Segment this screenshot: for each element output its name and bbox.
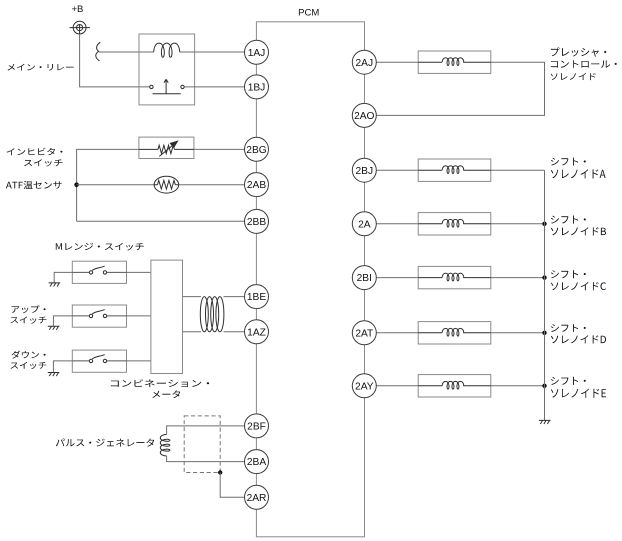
pin 2AY — [352, 374, 376, 398]
pin 2AT — [352, 321, 376, 345]
svg-text:1AZ: 1AZ — [247, 327, 266, 338]
wire battery feed to relay coil — [99, 51, 154, 53]
up switch box — [72, 305, 126, 327]
svg-text:2BB: 2BB — [247, 217, 266, 228]
svg-text:2BF: 2BF — [247, 422, 266, 433]
wire shield to pin 2AR — [220, 473, 245, 498]
pin 2BJ — [352, 158, 376, 182]
label shift solenoid A line1 — [551, 158, 586, 166]
svg-text:2AY: 2AY — [355, 381, 374, 392]
relay box (main relay) — [139, 34, 195, 105]
svg-text:2AJ: 2AJ — [356, 58, 374, 69]
wire pulse generator coil to pin 2BA — [167, 456, 245, 462]
wire pin to shift solenoid A — [376, 169, 418, 171]
wire +B to relay contact — [80, 34, 150, 87]
svg-text:2BA: 2BA — [247, 457, 266, 468]
shift solenoid B — [418, 213, 491, 235]
junction dot shield — [218, 470, 222, 474]
twisted pair wires meter to pins 1BE 1AZ — [183, 297, 246, 332]
label shift solenoid B line1 — [551, 216, 586, 224]
solenoid return bus wire — [544, 170, 546, 420]
relay contact — [150, 79, 185, 93]
svg-text:2A: 2A — [358, 219, 371, 230]
svg-text:1BJ: 1BJ — [248, 83, 266, 94]
label combination meter line2 — [152, 390, 180, 398]
inhibitor variable resistor — [139, 145, 194, 153]
svg-text:2AT: 2AT — [355, 328, 373, 339]
pin 2BG — [245, 137, 269, 161]
wire relay coil to pin 1AJ — [179, 51, 245, 53]
label pressure control solenoid line2 — [551, 60, 617, 68]
pin 2AR — [245, 485, 269, 509]
pin 1BE — [245, 285, 269, 309]
label shift solenoid C line1 — [551, 270, 586, 278]
svg-text:1AJ: 1AJ — [248, 48, 266, 59]
label up switch line2 — [11, 317, 47, 324]
wire shift solenoid C to return bus — [491, 277, 545, 279]
label inhibitor switch line1 — [7, 148, 63, 156]
junction dot solenoid D return — [542, 331, 546, 335]
wire left bus to pin 2BB — [77, 220, 245, 222]
svg-text:2AB: 2AB — [247, 180, 266, 191]
svg-text:+B: +B — [72, 4, 84, 15]
inhibitor arrow — [159, 141, 177, 156]
svg-text:2BI: 2BI — [357, 273, 372, 284]
relay coil — [154, 43, 180, 57]
shift solenoid E — [418, 375, 491, 397]
inhibitor switch box — [139, 137, 194, 158]
ground solenoid return bus — [539, 420, 551, 424]
label shift solenoid B line2 — [551, 227, 606, 235]
wire down switch to ground — [53, 361, 72, 373]
wire pin 2AJ to pressure control solenoid — [376, 61, 418, 63]
wire pin to shift solenoid D — [376, 332, 418, 334]
wire up switch to meter — [127, 315, 151, 317]
ATF temperature sensor — [154, 176, 179, 193]
pin 1AZ — [245, 320, 269, 344]
M range switch contact — [72, 266, 126, 274]
svg-text:2AO: 2AO — [354, 111, 374, 122]
wire M range switch to ground — [54, 272, 72, 283]
wire shift solenoid B to return bus — [491, 223, 545, 225]
junction dot ATF row — [74, 182, 79, 187]
wire break to battery — [96, 42, 101, 61]
pin 2BF — [245, 414, 269, 438]
wire pin to shift solenoid C — [376, 277, 418, 279]
label shift solenoid E line1 — [551, 377, 586, 385]
pulse generator coil — [160, 434, 170, 456]
label down switch line2 — [11, 362, 47, 369]
pin 2AJ — [352, 50, 376, 74]
wire shift solenoid A to return bus — [491, 169, 545, 171]
pin 2AO — [352, 103, 376, 127]
ground M range switch — [49, 283, 61, 287]
svg-text:PCM: PCM — [298, 8, 319, 19]
pressure control solenoid — [418, 51, 491, 73]
junction dot solenoid C return — [542, 275, 546, 279]
pin 2BA — [245, 450, 269, 474]
label up switch line1 — [12, 305, 46, 313]
label shift solenoid C line2 — [551, 282, 606, 290]
label M range switch — [56, 243, 144, 251]
label down switch line1 — [12, 351, 46, 359]
pin 2BB — [245, 209, 269, 233]
down switch box — [72, 350, 126, 372]
label ATF temp sensor — [6, 181, 62, 189]
wire pulse generator coil to pin 2BF — [167, 426, 245, 435]
junction dot solenoid E return — [542, 384, 546, 388]
shift solenoid A — [418, 159, 491, 181]
wire shift solenoid D to return bus — [491, 332, 545, 334]
pin 1AJ — [245, 40, 269, 64]
pin 2AB — [245, 173, 269, 197]
PCM module box — [256, 22, 364, 537]
svg-text:2BJ: 2BJ — [356, 166, 374, 177]
pin 2A — [352, 212, 376, 236]
label pressure control solenoid line1 — [551, 47, 606, 56]
wire inhibitor to pin 2BG — [194, 148, 245, 150]
wire junction to ATF sensor — [77, 184, 155, 186]
pin 1BJ — [245, 75, 269, 99]
label shift solenoid E line2 — [551, 389, 606, 398]
wire inhibitor to left bus down to 2BB row — [77, 149, 139, 221]
junction dot solenoid B return — [542, 222, 546, 226]
svg-text:1BE: 1BE — [247, 292, 266, 303]
wire up switch to ground — [53, 316, 72, 326]
wire shift solenoid E to return bus — [491, 385, 545, 387]
label shift solenoid D line1 — [551, 324, 586, 332]
power terminal +B — [70, 21, 90, 34]
up switch contact — [72, 310, 126, 318]
svg-text:2BG: 2BG — [246, 145, 266, 156]
ground down switch — [48, 373, 60, 377]
label pulse generator — [56, 439, 154, 447]
M range switch box — [72, 261, 126, 283]
wire down switch to meter — [127, 360, 151, 362]
shift solenoid D — [418, 322, 491, 344]
label shift solenoid A line2 — [551, 169, 606, 178]
pulse generator shield dashed box — [184, 416, 220, 473]
shift solenoid C — [418, 266, 491, 288]
label shift solenoid D line2 — [551, 335, 606, 343]
wire pressure control solenoid return to pin 2AO — [376, 62, 545, 115]
down switch contact — [72, 355, 126, 363]
pin 2BI — [352, 266, 376, 290]
wire pin to shift solenoid B — [376, 223, 418, 225]
label pressure control solenoid line3 — [551, 73, 596, 80]
label main relay — [8, 64, 74, 71]
wire ATF sensor to pin 2AB — [179, 184, 245, 186]
combination meter box — [151, 260, 183, 373]
label combination meter line1 — [111, 379, 209, 387]
ground up switch — [48, 326, 60, 330]
wire M range switch to meter — [127, 271, 151, 273]
label inhibitor switch line2 — [24, 159, 62, 166]
wire pin to shift solenoid E — [376, 385, 418, 387]
wire relay contact to pin 1BJ — [184, 86, 245, 88]
svg-text:2AR: 2AR — [247, 493, 267, 504]
